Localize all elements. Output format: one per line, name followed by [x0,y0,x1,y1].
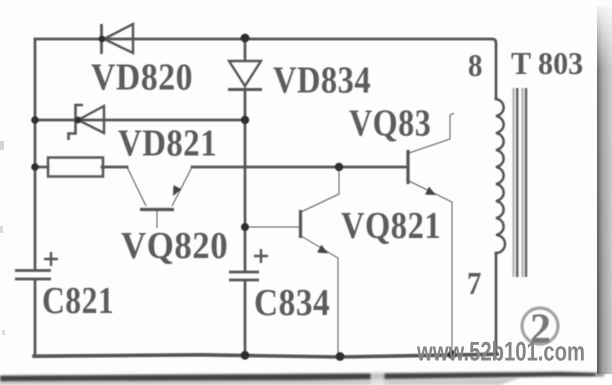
svg-text:7: 7 [467,266,481,302]
svg-text:VQ83: VQ83 [349,102,431,144]
svg-text:VQ821: VQ821 [341,204,441,247]
svg-text:VD820: VD820 [91,56,193,98]
svg-text:8: 8 [468,48,482,84]
svg-text:VD821: VD821 [118,121,217,164]
svg-text:VD834: VD834 [273,59,371,101]
svg-text:C821: C821 [42,279,114,321]
svg-text:VQ820: VQ820 [121,225,228,267]
svg-text:T 803: T 803 [511,45,583,81]
svg-text:C834: C834 [254,281,330,324]
svg-text:www.52b101.com: www.52b101.com [416,337,585,366]
